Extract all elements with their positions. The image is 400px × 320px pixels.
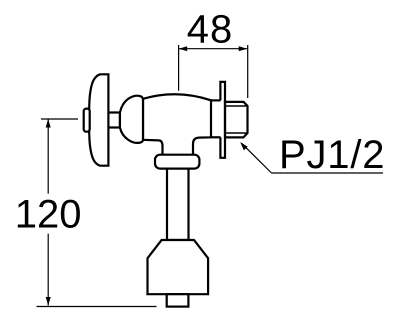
arrowhead left of 48 dim xyxy=(179,46,188,51)
handle cap screw xyxy=(84,109,90,132)
leader line diagonal to thread xyxy=(242,143,272,173)
handle stem xyxy=(104,113,120,128)
extension line bottom of 120 dim (to tailpiece end) xyxy=(37,306,157,308)
arrowhead top of 120 dim xyxy=(46,119,51,128)
arrowhead right of 48 dim xyxy=(239,46,248,51)
dimension line 48 xyxy=(179,48,248,50)
arrowhead bottom of 120 dim xyxy=(46,297,51,306)
tailpiece xyxy=(167,294,189,306)
dimension line 120 upper segment xyxy=(47,119,49,194)
bonnet bell xyxy=(120,96,143,143)
wall flange plate xyxy=(220,82,225,158)
lock nut (drawn over pipe top) xyxy=(155,155,199,169)
valve body with downward leg xyxy=(143,94,211,155)
svg-text:120: 120 xyxy=(15,193,82,237)
down pipe xyxy=(167,162,189,240)
leader arrowhead pointing at PJ1/2 thread xyxy=(240,142,247,150)
svg-text:PJ1/2: PJ1/2 xyxy=(279,133,385,177)
extension line top of 120 dim (to handle cap) xyxy=(41,118,78,120)
extension line left of 48 dim xyxy=(178,45,180,91)
leader line horizontal under PJ1/2 xyxy=(272,172,384,174)
handle wheel xyxy=(89,74,108,165)
dimension line 120 lower segment xyxy=(47,234,49,306)
spud cone xyxy=(148,240,209,294)
extension line right of 48 dim xyxy=(247,45,249,98)
valve outlet neck bottom edge xyxy=(211,136,221,138)
valve outlet neck top edge xyxy=(211,99,221,101)
hex thread end PJ1/2 xyxy=(225,102,248,137)
svg-text:48: 48 xyxy=(187,8,234,52)
